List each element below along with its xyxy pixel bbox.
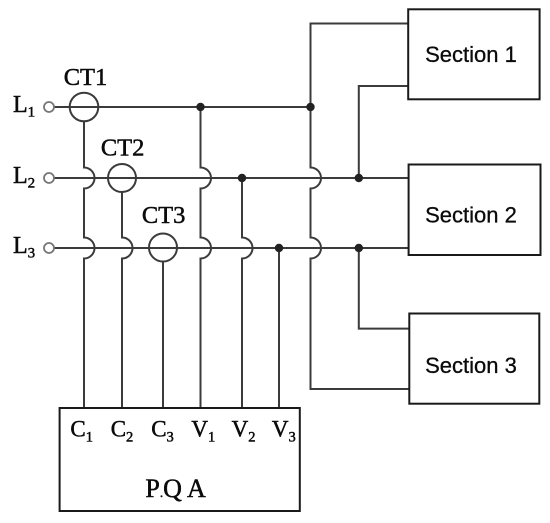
wire L3 horizontal [54, 247, 409, 249]
terminal L3 [44, 243, 54, 253]
wire L1 horizontal [54, 106, 311, 108]
PQA box [60, 408, 300, 511]
junction dot L2/Section1 [355, 174, 363, 182]
terminal L2 [44, 173, 54, 183]
wire V3 vertical [278, 248, 280, 408]
junction dot L1/Section wires [306, 103, 314, 111]
svg-text:Section 1: Section 1 [425, 42, 517, 67]
wire L2 horizontal [54, 177, 409, 179]
wire L2 to Section 1 [359, 86, 409, 178]
CT2 circle [108, 164, 136, 192]
Section 3 box [409, 314, 539, 404]
junction dot L3/Section3 [355, 244, 363, 252]
wire V2 vertical with hop [242, 178, 253, 408]
junction dot L1/V1 [196, 103, 204, 111]
wire C2 vertical with hop [122, 192, 133, 408]
CT3 circle [149, 234, 177, 262]
wire L1 to Section 3 with hops [311, 107, 410, 389]
svg-text:CT3: CT3 [142, 202, 186, 229]
wire L1 to Section 1 [311, 24, 409, 108]
junction dot L2/V2 [238, 174, 246, 182]
junction dot L3/V3 [275, 244, 283, 252]
wire C1 vertical with hops [84, 121, 95, 408]
svg-text:CT1: CT1 [64, 64, 108, 91]
svg-text:Section 2: Section 2 [425, 203, 517, 228]
wire L3 to Section 3 [359, 248, 410, 329]
Section 1 box [408, 9, 539, 99]
wire C3 vertical [162, 262, 164, 409]
wire V1 vertical with hops [201, 107, 212, 408]
CT1 circle [70, 93, 99, 122]
terminal L1 [44, 102, 54, 112]
svg-text:P.Q A: P.Q A [145, 474, 206, 503]
svg-text:Section 3: Section 3 [425, 353, 517, 378]
Section 2 box [409, 165, 541, 256]
svg-text:CT2: CT2 [101, 135, 145, 162]
